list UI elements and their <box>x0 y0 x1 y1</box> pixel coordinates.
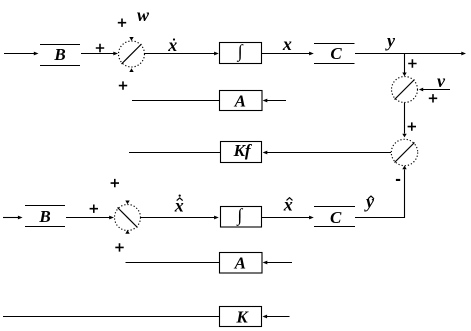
svg-text:y: y <box>364 192 375 212</box>
svg-text:Kf: Kf <box>233 141 253 160</box>
svg-text:B: B <box>53 45 65 64</box>
svg-text:A: A <box>234 254 246 273</box>
svg-text:x: x <box>282 34 292 54</box>
svg-text:C: C <box>330 44 342 63</box>
svg-text:y: y <box>385 31 396 51</box>
svg-text:∫: ∫ <box>236 205 243 226</box>
svg-text:w: w <box>137 5 150 25</box>
svg-text:A: A <box>234 91 246 110</box>
svg-text:B: B <box>38 207 50 226</box>
svg-text:∫: ∫ <box>237 41 244 62</box>
svg-text:v: v <box>437 71 446 91</box>
svg-text:x: x <box>283 194 293 214</box>
svg-text:C: C <box>330 208 342 227</box>
svg-text:K: K <box>235 308 249 327</box>
svg-text:x: x <box>167 35 177 55</box>
